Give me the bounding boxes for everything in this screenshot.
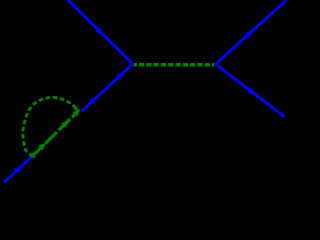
wire: outgoing antifermion line right vertex to bottom-right [216,64,285,117]
arrowhead 2 on positron line [89,96,97,104]
rotation arc: green dashed curve around spin arrow [23,97,77,156]
arrowhead on electron line [95,27,103,35]
wire: incoming positron line, upper segment to left vertex [82,64,133,111]
arrowhead 1 on positron line [14,165,22,173]
wire: incoming electron line top-left to left vertex [68,0,133,64]
arrowhead at top end of rotation arc [73,106,79,112]
arrowhead on outgoing fermion line [245,30,254,38]
green arrowhead 1 on spin arrow [38,143,46,151]
green arrowhead at tip of spin arrow [72,109,80,117]
photon/Z propagator: green dashed line between vertices [134,63,214,66]
wire: incoming positron line, lower segment from bottom-left corner [4,155,34,182]
spin arrow: green dashed arrow along lower-left leg [32,112,77,156]
wire: outgoing fermion line right vertex to top-right [216,1,286,65]
arrowhead 3 on positron line [116,72,124,80]
arrowhead on outgoing antifermion line [248,88,257,96]
arrowhead at bottom end of rotation arc [30,153,36,159]
green arrowhead 2 on spin arrow [61,120,69,128]
